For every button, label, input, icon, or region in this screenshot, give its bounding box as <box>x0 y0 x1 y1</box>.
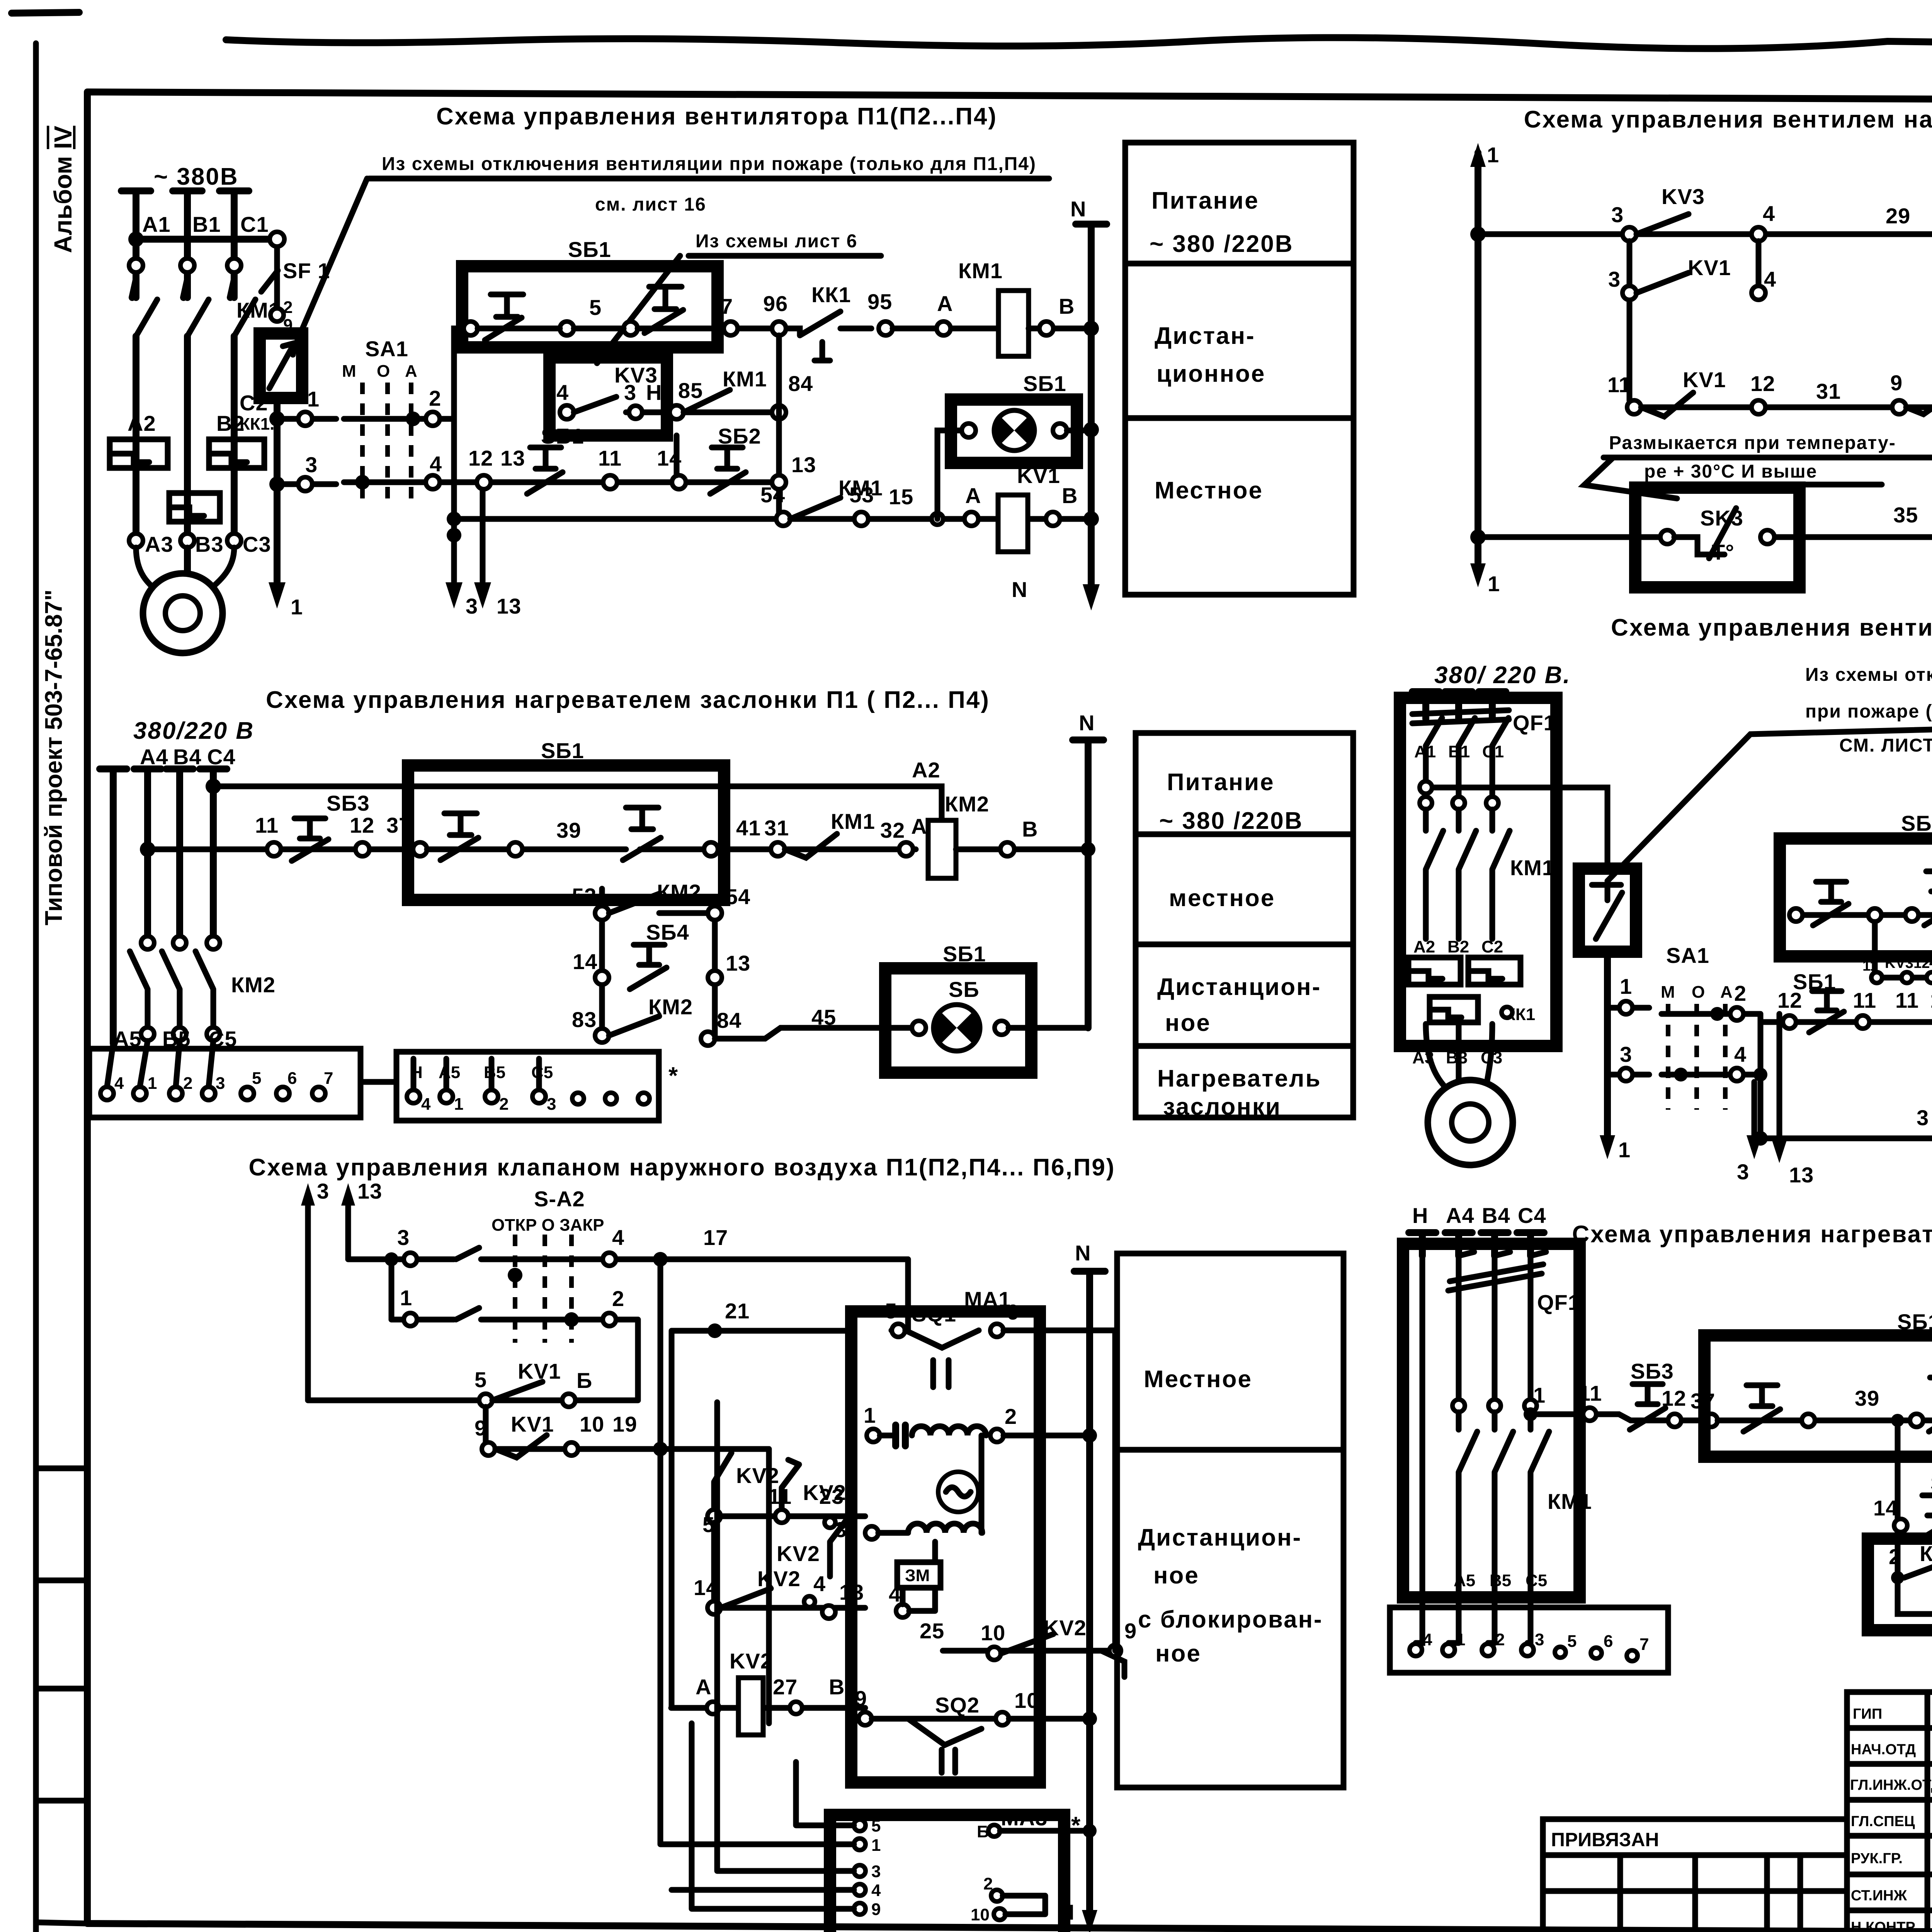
risers <box>308 1200 348 1400</box>
svg-text:КМ2: КМ2 <box>657 880 701 904</box>
wire inside SB1 <box>478 326 718 332</box>
terminal 12 <box>355 842 369 856</box>
node A1 <box>128 231 144 247</box>
thermal element A2/KK1 <box>110 439 168 468</box>
break contact KV1 <box>495 1435 547 1458</box>
terminal 2 <box>1730 1007 1743 1020</box>
svg-text:10: 10 <box>981 1621 1005 1645</box>
terminal 11 <box>1583 1408 1596 1421</box>
terminal <box>1420 781 1432 794</box>
svg-text:7: 7 <box>1639 1635 1649 1654</box>
svg-text:5: 5 <box>252 1069 261 1088</box>
thermal element KK1 a <box>1408 957 1461 985</box>
table frame <box>1117 1253 1344 1787</box>
row line <box>1125 261 1354 267</box>
contact KV2 e <box>721 1588 771 1608</box>
terminal 12 <box>477 475 491 489</box>
node <box>1674 1068 1688 1082</box>
QF1 blades <box>1426 718 1509 796</box>
svg-text:Схема управления нагревателе: Схема управления нагревателем заслонки П… <box>266 687 990 713</box>
wire 10 to N <box>1009 1716 1090 1722</box>
svg-text:Н: Н <box>646 380 662 405</box>
terminal 3 <box>404 1253 417 1266</box>
terminal <box>270 308 284 321</box>
attachment grid cols <box>1620 1855 1800 1932</box>
svg-text:1: 1 <box>871 1836 881 1855</box>
terminal 1 <box>404 1313 417 1326</box>
svg-text:5: 5 <box>885 1299 897 1323</box>
contact <box>456 1248 479 1259</box>
contact KM2 lower <box>609 1016 659 1036</box>
terminal 83 <box>595 1029 609 1043</box>
wire 17 drop <box>891 1259 908 1330</box>
svg-text:KV2: KV2 <box>777 1541 820 1566</box>
svg-text:SБ3: SБ3 <box>327 791 370 815</box>
wire lower row <box>1760 1019 1932 1025</box>
svg-text:KV1: KV1 <box>1017 463 1060 488</box>
node <box>1081 842 1095 857</box>
svg-text:СТ.ИНЖ: СТ.ИНЖ <box>1851 1888 1907 1904</box>
contact KV2 b <box>782 1460 799 1510</box>
terminal 9 <box>1892 400 1906 414</box>
wire in box <box>1718 1418 1932 1423</box>
contact KV1 <box>1636 273 1689 293</box>
terminal 6 <box>562 1394 575 1407</box>
SF1 arrow symbol <box>269 343 294 388</box>
wire row 3 <box>1760 1136 1932 1141</box>
svg-text:9: 9 <box>474 1416 487 1440</box>
lamp HL <box>934 1005 980 1051</box>
wire to N <box>1003 1433 1090 1439</box>
supply tap wire <box>1422 787 1607 869</box>
svg-text:QF1: QF1 <box>1513 711 1556 735</box>
riser wire <box>776 335 782 519</box>
terminal <box>509 842 522 856</box>
svg-text:19: 19 <box>612 1412 637 1436</box>
svg-text:11: 11 <box>1895 988 1919 1012</box>
svg-text:Схема управления клапаном н: Схема управления клапаном наружного возд… <box>248 1154 1115 1181</box>
svg-text:4: 4 <box>556 380 569 405</box>
svg-text:4: 4 <box>421 1095 431 1114</box>
terminal 84 node <box>772 405 786 419</box>
svg-text:11: 11 <box>1578 1381 1602 1405</box>
svg-text:4: 4 <box>813 1571 826 1596</box>
svg-text:6: 6 <box>1007 1300 1019 1324</box>
svg-text:5: 5 <box>589 295 602 320</box>
svg-text:QF1: QF1 <box>1537 1290 1580 1315</box>
svg-text:О: О <box>377 362 390 381</box>
terminal 14 <box>1894 1519 1907 1532</box>
button station SB1 box <box>1704 1335 1932 1457</box>
isolator circles on phases <box>129 259 143 272</box>
svg-text:КМ1: КМ1 <box>1920 1541 1932 1566</box>
node riser lamp <box>932 513 943 525</box>
thermal element C2 <box>169 493 220 522</box>
svg-text:А: А <box>937 291 953 316</box>
svg-text:11: 11 <box>598 446 622 470</box>
position dot <box>564 1312 579 1327</box>
svg-text:КМ2: КМ2 <box>648 995 693 1019</box>
svg-text:Местное: Местное <box>1144 1366 1252 1393</box>
terminal 4 <box>1752 286 1765 300</box>
terminal 54 <box>776 512 790 526</box>
terminal block 1 <box>89 1049 361 1117</box>
terminal 4 <box>603 1253 616 1266</box>
svg-text:13: 13 <box>1789 1163 1814 1187</box>
feeder T-bars <box>1409 1233 1544 1256</box>
button 2 <box>623 808 661 860</box>
relay coil KV1 <box>998 495 1028 552</box>
node <box>1753 1068 1767 1082</box>
wire in box <box>1793 912 1932 918</box>
button 1 <box>440 813 478 860</box>
wire control row <box>148 847 420 852</box>
QF1 tie bars <box>1412 710 1509 723</box>
svg-text:KV1: KV1 <box>1683 367 1726 392</box>
svg-text:МА3: МА3 <box>1001 1806 1048 1830</box>
SA1 dashed columns <box>362 383 411 506</box>
svg-text:SБ4: SБ4 <box>1930 1471 1932 1495</box>
svg-text:3: 3 <box>1608 267 1621 291</box>
svg-text:местное: местное <box>1169 885 1275 912</box>
SA1 dashed columns <box>1668 1004 1725 1110</box>
terminal 9 <box>482 1442 495 1456</box>
button 1 <box>1743 1385 1780 1432</box>
terminal on box edge <box>464 321 478 335</box>
svg-text:1: 1 <box>1456 1630 1465 1649</box>
svg-text:В: В <box>1059 294 1075 318</box>
svg-text:KV1: KV1 <box>511 1412 554 1436</box>
svg-text:11: 11 <box>768 1484 792 1509</box>
terminal 5 <box>560 321 574 335</box>
left feed wires <box>660 1402 854 1909</box>
terminal 53 <box>854 512 868 526</box>
svg-text:4: 4 <box>114 1074 124 1093</box>
arrow down feeder 3 <box>446 582 463 609</box>
wire 2 <box>1003 1896 1045 1914</box>
terminal 85 <box>670 405 684 419</box>
svg-text:Альбом IV: Альбом IV <box>49 126 77 253</box>
aux contact KM1 <box>684 390 730 412</box>
svg-text:SБ2: SБ2 <box>718 424 761 448</box>
terminal 10 <box>996 1712 1009 1725</box>
terminal 11 <box>267 842 281 856</box>
N feeder through <box>1416 1256 1422 1643</box>
terminal 4 <box>426 475 440 489</box>
bus line 1 <box>1475 153 1481 562</box>
svg-text:А5: А5 <box>439 1063 460 1082</box>
contact blobs <box>132 280 234 298</box>
svg-text:В4: В4 <box>173 745 202 769</box>
table 3 <box>1136 733 1353 1120</box>
button SB1 lower <box>527 447 563 494</box>
contactor coil KM2 <box>928 820 956 878</box>
svg-text:1: 1 <box>1487 143 1499 167</box>
svg-text:45: 45 <box>811 1005 836 1029</box>
stub 1 <box>285 416 336 422</box>
svg-text:3: 3 <box>1611 202 1624 227</box>
thermostat SK3 box <box>1635 488 1799 587</box>
svg-text:В2: В2 <box>1447 937 1469 956</box>
contact KV3 <box>1636 214 1689 234</box>
stub 3 <box>1607 1072 1649 1078</box>
svg-text:ОТКР О ЗАКР: ОТКР О ЗАКР <box>492 1216 604 1235</box>
actuator MA1 box <box>851 1311 1040 1782</box>
table frame <box>1136 733 1353 1117</box>
svg-text:Схема управления вентилятора: Схема управления вентилятора П5 (П6,П9) <box>1611 614 1932 641</box>
wire 6 to loop <box>1003 1328 1115 1333</box>
lamp terminal right <box>1053 423 1067 437</box>
svg-text:А: А <box>1720 983 1733 1002</box>
svg-text:SБ1: SБ1 <box>943 942 986 966</box>
row lines <box>1136 834 1353 1046</box>
svg-text:Дистанцион-: Дистанцион- <box>1157 974 1321 1000</box>
svg-text:2: 2 <box>183 1074 192 1093</box>
svg-text:S-А2: S-А2 <box>534 1187 585 1211</box>
node on N <box>1083 422 1099 437</box>
svg-text:КК1.: КК1. <box>240 415 274 434</box>
position dot <box>508 1268 522 1282</box>
terminal 13 <box>822 1605 835 1619</box>
svg-text:В5: В5 <box>484 1063 505 1082</box>
node 1 <box>269 411 285 427</box>
svg-text:53: 53 <box>849 483 874 507</box>
wire B to N <box>1000 1828 1090 1834</box>
svg-text:ЗМ: ЗМ <box>905 1566 930 1585</box>
svg-text:11: 11 <box>255 813 279 837</box>
node 3 <box>269 476 285 492</box>
terminals <box>407 1090 420 1103</box>
winding 2 <box>908 1524 982 1533</box>
QF tie bar <box>1448 1264 1543 1291</box>
node <box>1082 1711 1097 1726</box>
terminal 53 <box>595 906 609 920</box>
svg-text:А4: А4 <box>1446 1203 1475 1228</box>
svg-text:83: 83 <box>572 1007 597 1032</box>
terminal 5 <box>707 1510 721 1523</box>
svg-text:14: 14 <box>1873 1496 1898 1520</box>
svg-text:3: 3 <box>397 1225 410 1250</box>
wire row B <box>391 1317 638 1323</box>
motor symbol <box>938 1472 978 1512</box>
isolator terminals <box>1420 797 1432 809</box>
svg-text:А5: А5 <box>1454 1571 1475 1590</box>
phase feeder C1 <box>219 191 249 545</box>
svg-text:12: 12 <box>1750 371 1775 396</box>
wire <box>878 1435 981 1562</box>
svg-text:В4: В4 <box>1482 1203 1510 1228</box>
svg-text:3: 3 <box>317 1179 329 1203</box>
arrows 3 13 <box>1754 1014 1779 1136</box>
svg-text:КМ2: КМ2 <box>945 792 989 816</box>
wire branch 3 <box>480 482 486 582</box>
terminal 5 <box>479 1394 492 1407</box>
svg-text:85: 85 <box>678 378 703 403</box>
sub row risers <box>602 889 715 1037</box>
callout wire to KV3 <box>597 256 680 363</box>
scheme 6 actuator MA1 <box>660 1241 1115 1932</box>
svg-text:13: 13 <box>357 1179 382 1203</box>
svg-text:4: 4 <box>1423 1630 1432 1649</box>
svg-text:ционное: ционное <box>1156 361 1265 387</box>
svg-text:39: 39 <box>556 818 581 842</box>
svg-text:3: 3 <box>547 1095 556 1114</box>
thermal element KK1 b <box>1468 957 1520 985</box>
terminal 4 <box>896 1604 909 1617</box>
svg-text:10: 10 <box>971 1905 990 1924</box>
svg-text:ГЛ.СПЕЦ: ГЛ.СПЕЦ <box>1851 1813 1915 1830</box>
svg-text:84: 84 <box>788 371 813 396</box>
feeder A4 <box>134 769 161 943</box>
tap node <box>1524 1407 1537 1421</box>
svg-text:В5: В5 <box>1490 1571 1511 1590</box>
button SB4 <box>630 945 667 989</box>
button 2 <box>1929 1378 1932 1432</box>
terminal 2 <box>603 1313 616 1326</box>
svg-text:54: 54 <box>726 884 750 909</box>
svg-text:KV3: KV3 <box>1662 184 1705 209</box>
feeder B4 <box>166 769 193 943</box>
callout wire to SF1 <box>298 179 367 340</box>
svg-text:13: 13 <box>497 594 521 618</box>
svg-text:1: 1 <box>1488 571 1500 596</box>
node <box>1753 1131 1768 1146</box>
svg-text:4: 4 <box>1764 267 1776 291</box>
wire riser down <box>451 419 457 582</box>
svg-text:23: 23 <box>819 1484 844 1509</box>
arrow up 13 <box>341 1183 355 1206</box>
svg-text:2: 2 <box>429 386 441 410</box>
scan top edge short dash top-left <box>12 12 79 13</box>
svg-text:27: 27 <box>773 1675 798 1699</box>
neutral line N <box>1076 224 1107 587</box>
node <box>653 1252 668 1267</box>
button SB4 <box>1920 1495 1932 1540</box>
svg-text:1: 1 <box>291 595 303 619</box>
wire KV3 to riser <box>667 410 779 415</box>
node 2 <box>1891 1571 1904 1584</box>
terminal 9 <box>1109 1645 1121 1656</box>
signature cols <box>1927 1692 1932 1932</box>
terminal 4 <box>1730 1068 1743 1081</box>
svg-text:84: 84 <box>717 1008 742 1032</box>
svg-text:*: * <box>668 1063 679 1089</box>
terminal 2 <box>426 412 440 426</box>
terminal 4 <box>560 405 574 419</box>
thermal contact KK1 <box>788 311 871 361</box>
svg-text:11: 11 <box>1607 372 1631 397</box>
svg-text:7: 7 <box>721 294 733 318</box>
svg-text:2: 2 <box>1734 981 1747 1005</box>
arrow up 3 <box>301 1183 315 1206</box>
row line <box>1117 1447 1344 1453</box>
terminal 13 <box>772 475 786 489</box>
terminal 84 <box>701 1032 715 1046</box>
svg-text:Схема управления нагревателе: Схема управления нагревателем заслонки П… <box>1572 1221 1932 1248</box>
terminal 14 <box>672 475 686 489</box>
breaker QF1 box <box>1403 1244 1580 1597</box>
terminal 10 <box>565 1442 578 1456</box>
lamp wire to N <box>1067 428 1091 434</box>
button 1 <box>1813 882 1849 925</box>
terminal 54 <box>708 906 722 920</box>
node on N <box>1082 1428 1097 1443</box>
wire row 4 <box>344 480 779 485</box>
node <box>1470 226 1486 242</box>
riser 17-column <box>658 1259 663 1449</box>
svg-text:KV2: KV2 <box>757 1566 801 1591</box>
svg-text:А1: А1 <box>142 212 171 236</box>
KM2 main isolator circles <box>141 936 154 949</box>
svg-text:11: 11 <box>1853 988 1876 1012</box>
svg-text:32: 32 <box>880 818 905 842</box>
svg-text:6: 6 <box>287 1069 297 1088</box>
node <box>653 1442 668 1456</box>
wire <box>903 1588 935 1611</box>
wire row 14-13 <box>714 1523 865 1608</box>
svg-text:9: 9 <box>1890 371 1903 395</box>
button 2 <box>1924 871 1932 925</box>
node C4 <box>206 779 221 794</box>
break contact KV3 <box>1906 381 1932 427</box>
button station SB1 box <box>1780 838 1932 956</box>
svg-text:96: 96 <box>763 291 788 316</box>
svg-text:5: 5 <box>1567 1632 1577 1651</box>
breaker QF1 box <box>1400 698 1556 1046</box>
svg-text:3: 3 <box>1917 1105 1929 1130</box>
svg-text:Типовой проект 503-7-65.87": Типовой проект 503-7-65.87" <box>41 589 67 925</box>
svg-text:СМ. ЛИСТ 16: СМ. ЛИСТ 16 <box>1839 735 1932 756</box>
svg-text:ПРИВЯЗАН: ПРИВЯЗАН <box>1551 1829 1659 1850</box>
terminal 3 <box>1622 227 1636 241</box>
limit switch SQ1 <box>905 1330 979 1387</box>
relay box A2 lower <box>1868 1539 1932 1630</box>
contact KM1 <box>1904 1558 1932 1578</box>
svg-text:SQ2: SQ2 <box>935 1693 980 1717</box>
SK3 contact <box>1674 508 1736 558</box>
riser from KV3 <box>674 435 680 475</box>
svg-text:С4: С4 <box>1518 1203 1546 1228</box>
svg-text:ре + 30°С И выше: ре + 30°С И выше <box>1644 461 1817 482</box>
svg-text:А: А <box>965 483 981 508</box>
svg-text:29: 29 <box>1886 204 1910 228</box>
svg-text:SF 1: SF 1 <box>283 259 330 283</box>
svg-text:SA1: SA1 <box>365 337 408 361</box>
terminal 7 <box>724 321 738 335</box>
terminals <box>1410 1644 1422 1656</box>
terminal 11 <box>775 1510 788 1523</box>
terminal B right <box>988 1825 1000 1837</box>
terminal B <box>1039 321 1053 335</box>
svg-text:А1: А1 <box>1414 742 1436 761</box>
terminal 13 <box>708 971 722 985</box>
wire <box>893 326 998 332</box>
terminal 31 <box>771 842 785 856</box>
supply rail A2 <box>213 786 942 820</box>
svg-text:10: 10 <box>580 1412 604 1436</box>
contact KV2 a <box>714 1453 731 1510</box>
block wires <box>107 1041 213 1087</box>
lamp terminal <box>912 1021 926 1035</box>
terminals <box>707 1702 719 1714</box>
svg-text:2: 2 <box>983 1874 993 1893</box>
svg-text:С5: С5 <box>1526 1571 1547 1590</box>
svg-text:12: 12 <box>468 446 493 470</box>
S-A2 dashed columns <box>515 1235 571 1343</box>
row line <box>1125 415 1354 421</box>
svg-text:N: N <box>1079 711 1095 735</box>
wire row A <box>348 1257 908 1262</box>
